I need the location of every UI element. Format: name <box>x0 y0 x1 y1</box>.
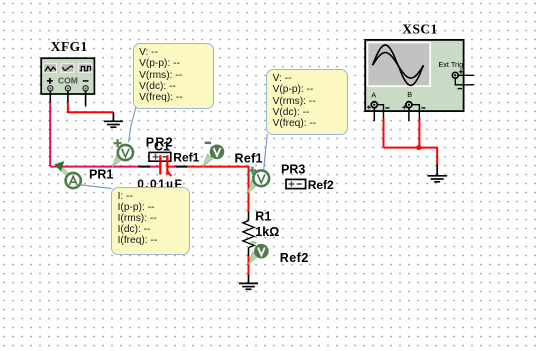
XSC1 Ext Trig minus <box>458 88 462 90</box>
XSC1 Ext Trig terminal <box>452 72 458 78</box>
oscilloscope XSC1 body <box>365 40 463 111</box>
wire COM to ground <box>68 103 114 113</box>
probe PR3 icon box with +/- <box>286 179 306 188</box>
XFG1 pin stub + <box>49 91 51 103</box>
resistor R1 bottom pin <box>248 248 250 257</box>
svg-text:C1: C1 <box>154 139 170 153</box>
XSC1 Ext Trig stubs <box>455 75 474 85</box>
XFG1 triangle-wave button <box>44 64 57 73</box>
XFG1 plus terminal label <box>47 78 53 84</box>
XSC1 B elbow stub <box>412 105 419 119</box>
svg-text:Ext Trig: Ext Trig <box>438 60 463 69</box>
svg-text:A: A <box>371 90 376 99</box>
probe V1 tail <box>112 154 123 167</box>
wire bottom rail left of capacitor <box>50 166 159 168</box>
ground below scope <box>428 165 448 182</box>
leader line from probe V1 to tooltip 1 <box>129 108 136 143</box>
XSC1 screen trace B (inner sine) <box>373 53 424 78</box>
probe V2 tail <box>203 154 213 167</box>
XFG1 pin stub - (unconnected) <box>85 91 87 107</box>
XSC1 B pin stub down <box>408 108 410 122</box>
svg-text:R1: R1 <box>255 210 271 224</box>
XFG1 terminal - <box>83 86 88 91</box>
ground below R1 <box>239 275 258 290</box>
XFG1 pin stub COM <box>67 91 69 103</box>
XSC1 terminal A minus <box>385 107 389 109</box>
resistor R1 top pin <box>248 212 250 221</box>
XSC1 screen <box>367 42 431 87</box>
XFG1 square-wave button <box>79 64 92 73</box>
ground near XFG1 <box>104 112 123 127</box>
svg-text:XFG1: XFG1 <box>51 39 88 54</box>
probe Ref2 minus sign <box>250 241 256 244</box>
XSC1 A pin stub down <box>373 108 375 122</box>
XSC1 terminal B <box>406 102 412 108</box>
capacitor C1 right pin (black) <box>176 166 187 168</box>
wire R1 to ground <box>248 256 250 275</box>
probe V2 minus sign <box>205 142 211 145</box>
probe Ref2 tail <box>249 252 258 264</box>
leader line from probe PR3 to tooltip 2 <box>264 134 268 170</box>
capacitor C1 left pin (black) <box>139 166 151 168</box>
svg-text:PR1: PR1 <box>89 167 113 181</box>
svg-text:Ref1: Ref1 <box>235 152 263 166</box>
svg-text:PR3: PR3 <box>281 163 305 177</box>
wire XFG1 + down to bottom rail <box>49 103 51 167</box>
svg-text:COM: COM <box>58 76 78 86</box>
XFG1 minus terminal label <box>83 80 89 82</box>
probe Ref2 circle (filled) <box>254 244 269 259</box>
resistor R1 zigzag <box>243 221 254 248</box>
XSC1 screen trace A (outer sine) <box>373 45 424 85</box>
wire bottom rail right of capacitor <box>168 166 249 168</box>
XFG1 terminal COM <box>65 86 70 91</box>
XSC1 terminal B plus <box>402 105 406 109</box>
probe PR1 (A) circle <box>66 173 81 188</box>
svg-text:XSC1: XSC1 <box>402 21 437 36</box>
svg-text:Ref1: Ref1 <box>173 150 199 164</box>
svg-text:Ref2: Ref2 <box>280 251 309 265</box>
XFG1 terminal + <box>48 86 53 91</box>
wire right rail down to R1 <box>248 166 250 212</box>
probe PR3 tail <box>247 181 256 194</box>
svg-text:B: B <box>407 90 412 99</box>
tooltip 2 (probe PR3 readouts) <box>266 69 348 135</box>
XSC1 Ext Trig plus <box>459 70 463 74</box>
tooltip 3 (probe PR1 readouts) <box>111 187 190 255</box>
svg-text:Ref2: Ref2 <box>308 178 334 192</box>
probe PR3 plus sign <box>249 167 257 175</box>
junction dot <box>416 145 421 150</box>
wire scope ground rail <box>384 148 438 166</box>
leader line from probe PR1 to tooltip 3 <box>78 185 112 189</box>
XSC1 terminal B minus <box>421 107 425 109</box>
probe V1 plus sign <box>114 139 122 147</box>
probe V2 circle (filled) <box>210 145 225 160</box>
probe PR1 (A) arrow shaft <box>62 169 72 178</box>
XSC1 terminal A plus <box>367 105 371 109</box>
function generator XFG1 body <box>41 58 94 94</box>
probe PR1 (A) arrowhead <box>54 161 64 171</box>
probe PR2 icon box with +/- <box>149 152 171 161</box>
probe V1 circle <box>118 145 133 160</box>
capacitor C1 plates <box>159 155 171 176</box>
tooltip 1 (probe V1 readouts) <box>133 43 214 109</box>
wire scope A down <box>383 119 385 148</box>
wire scope B down <box>418 119 420 148</box>
XSC1 terminal A <box>371 102 377 108</box>
XFG1 sine-wave button <box>61 64 74 73</box>
svg-text:1kΩ: 1kΩ <box>255 225 279 239</box>
XSC1 A elbow stub <box>377 105 383 119</box>
probe PR3 circle <box>253 170 269 186</box>
